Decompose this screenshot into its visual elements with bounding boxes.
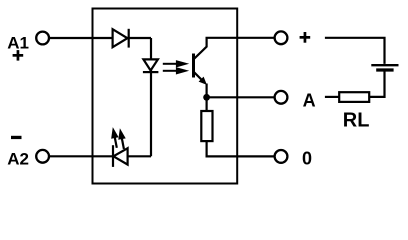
terminal A2 bbox=[36, 150, 49, 163]
wire plus terminal to battery bbox=[325, 38, 385, 64]
wire bottom branch to A2 bbox=[50, 155, 151, 157]
wire collector to plus terminal bbox=[206, 37, 274, 39]
load resistor RL bbox=[339, 92, 369, 102]
battery negative plate bbox=[376, 68, 393, 71]
wire resistor to 0 terminal bbox=[207, 141, 274, 157]
wire RL to A terminal bbox=[325, 96, 339, 98]
polarity minus at A2 bbox=[11, 136, 22, 139]
phototransistor collector lead bbox=[194, 38, 207, 60]
wire emitter node to A terminal bbox=[207, 96, 274, 98]
indicator LED bbox=[113, 145, 128, 167]
optocoupler light arrow upper bbox=[163, 60, 189, 67]
resistor R (internal) bbox=[201, 111, 212, 141]
svg-text:A2: A2 bbox=[7, 150, 29, 169]
indicator LED emission arrow left bbox=[109, 126, 120, 148]
svg-text:0: 0 bbox=[302, 148, 312, 168]
module outline box bbox=[93, 9, 238, 184]
terminal A1 bbox=[36, 32, 49, 45]
diode V1 (series protection) bbox=[113, 29, 129, 48]
terminal plus bbox=[275, 31, 288, 44]
polarity plus at A1 bbox=[13, 50, 24, 61]
junction dot at emitter node bbox=[203, 94, 210, 101]
label plus terminal bbox=[300, 32, 311, 43]
svg-text:A1: A1 bbox=[7, 33, 29, 52]
wire emitter down to resistor bbox=[206, 84, 208, 112]
wire vertical input branch bbox=[150, 38, 152, 156]
terminal A bbox=[275, 91, 288, 104]
optocoupler light arrow lower bbox=[163, 67, 189, 74]
phototransistor emitter lead bbox=[194, 72, 203, 81]
svg-text:A: A bbox=[303, 91, 316, 111]
battery positive plate bbox=[371, 64, 398, 66]
optocoupler LED bbox=[143, 59, 159, 72]
wire battery to load RL bbox=[369, 72, 384, 97]
terminal 0 bbox=[275, 150, 288, 163]
svg-text:RL: RL bbox=[343, 110, 370, 132]
wire A1 to diode and corner node bbox=[50, 37, 151, 39]
phototransistor base bar bbox=[192, 54, 195, 78]
indicator LED emission arrow right bbox=[116, 128, 127, 150]
emitter arrowhead bbox=[199, 77, 207, 85]
